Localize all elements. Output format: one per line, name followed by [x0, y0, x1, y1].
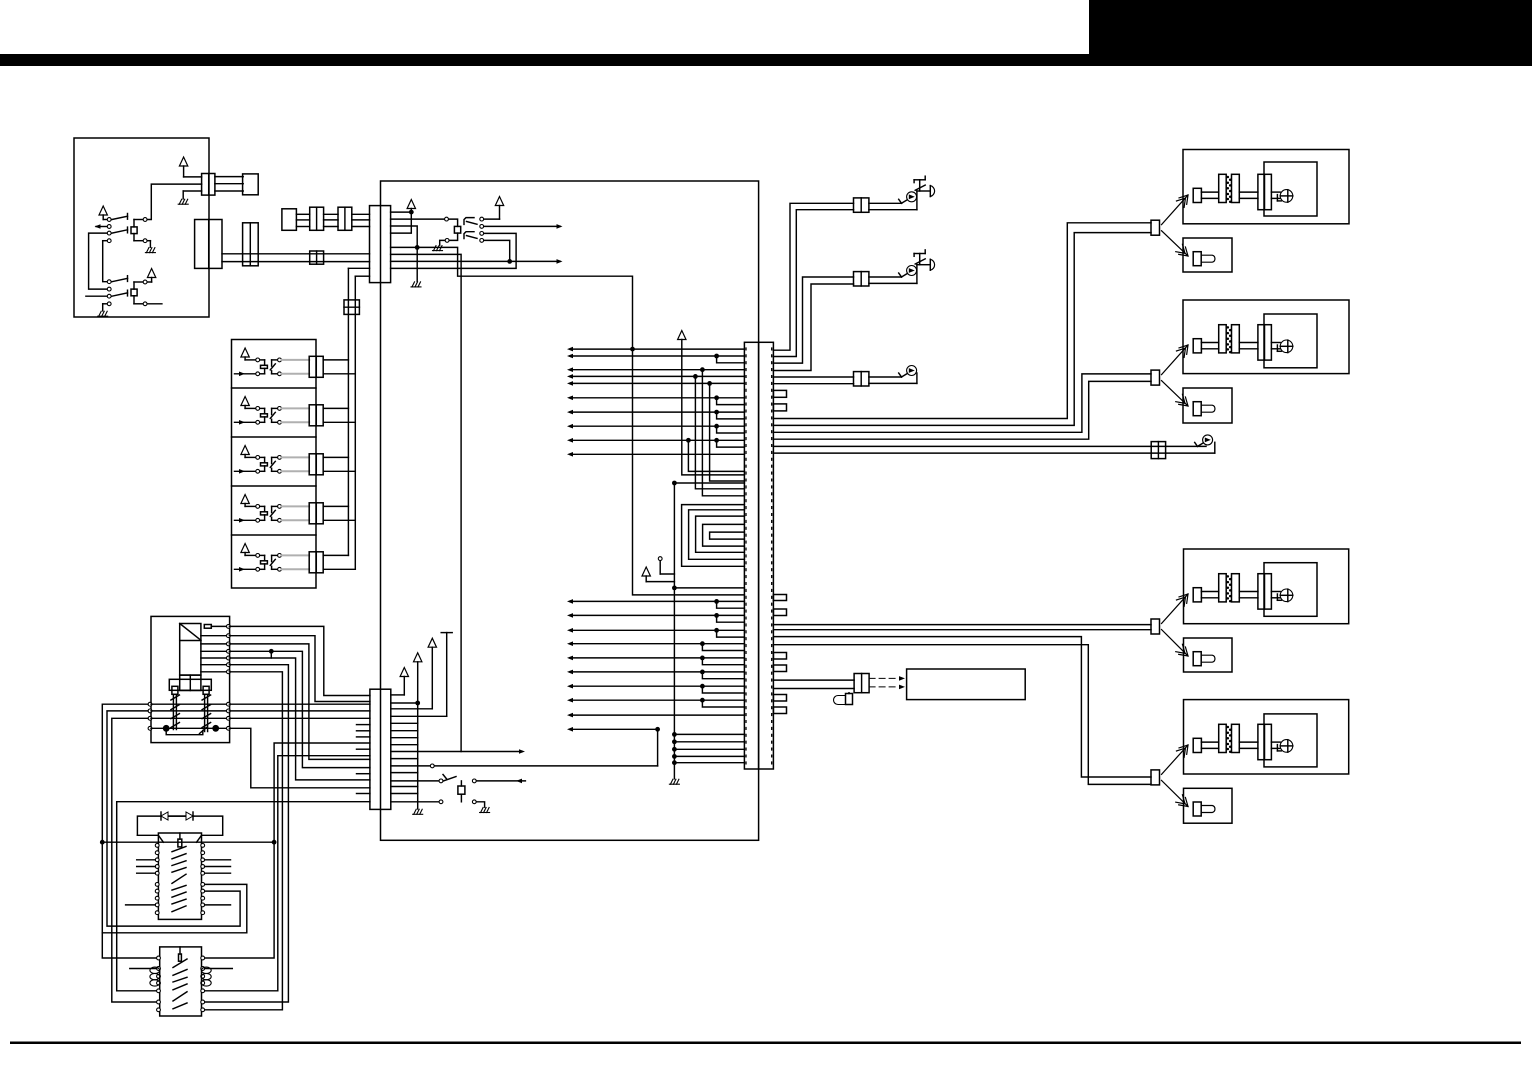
connector E2 inline — [310, 207, 324, 230]
connector J4 — [1151, 770, 1160, 785]
inline connector (tail lamp) — [1151, 442, 1165, 459]
contacts left (block 4) — [256, 505, 260, 509]
bulb symbol — [1193, 802, 1201, 816]
crossing vertical a — [686, 438, 691, 443]
socket connector — [1258, 574, 1265, 609]
U loop 4 — [703, 524, 745, 546]
wire block 4 to bus1 — [323, 505, 348, 507]
resistor (D aux) — [449, 219, 458, 226]
connector plates — [1219, 574, 1227, 602]
crossing vertical b — [693, 374, 698, 379]
wire SG1 to SG2 inner — [103, 240, 107, 242]
horn device circle — [907, 366, 917, 376]
relay output rows — [211, 625, 227, 627]
power arrow (right of D) — [407, 200, 415, 209]
power arrow B+ (combo box top) — [179, 157, 187, 166]
rear marker lamp box 2 — [1184, 788, 1233, 823]
contact — [445, 217, 449, 221]
wire D row8 Z to switch — [391, 233, 516, 268]
horn1 feed wires — [773, 203, 853, 350]
heater control connector — [854, 674, 869, 693]
switch SW-D hook upper — [464, 218, 474, 225]
arrow J3 to lamp assembly — [1162, 594, 1189, 624]
switch SG2 arm upper — [112, 278, 128, 281]
contact (SG2 right upper) — [143, 280, 147, 284]
frame to ignition row884 — [102, 884, 247, 932]
wires to heater control connector — [773, 679, 854, 681]
tail lamp wire pair — [773, 445, 1206, 447]
wire CA down to switch SG1 — [147, 184, 201, 219]
aux switch arm — [443, 777, 456, 781]
front turn signal lamp box — [1183, 150, 1349, 224]
relay wire to F — [229, 636, 370, 702]
resistor (block 1) — [261, 365, 268, 368]
rear combination lamp box — [1184, 549, 1349, 624]
starter stub left — [130, 968, 157, 970]
bus2 to connector D — [355, 275, 369, 277]
contacts left (block 3) — [256, 456, 260, 460]
U loop 3 — [696, 516, 745, 552]
switch SW-D contacts — [480, 217, 484, 221]
connector (block 3) — [309, 454, 323, 475]
bulb socket plug — [1193, 738, 1201, 752]
label box — [907, 669, 1026, 700]
wire D row5 staircase to main bundle — [391, 247, 633, 349]
connector D — [370, 206, 391, 283]
illumination lamp (heater) — [848, 692, 850, 695]
ground (D aux) — [440, 240, 445, 245]
front turn signal lamp box 2 — [1183, 300, 1349, 374]
ignition stubs right — [205, 859, 231, 861]
arrow J2 to bulb box — [1162, 381, 1189, 406]
wires E2-E3 — [324, 213, 338, 215]
power arrow F3 — [428, 638, 436, 647]
connector CB block — [243, 174, 259, 195]
power arrow (block 3) — [241, 446, 249, 455]
switch contacts right (block 5) — [278, 554, 282, 558]
horn arm — [915, 259, 925, 264]
bulb symbol — [1193, 402, 1201, 416]
resistor (block 2) — [261, 414, 268, 417]
relay row merge node — [269, 649, 274, 654]
horn contact tick — [902, 200, 907, 203]
horn connector — [854, 372, 869, 386]
jumper loops on CN right lower — [773, 595, 786, 601]
U loop 2 — [689, 510, 745, 560]
bulb socket plug — [1193, 188, 1201, 202]
connector E3 inline — [338, 207, 352, 230]
relay unit body — [180, 624, 201, 676]
plug pin left — [172, 686, 178, 694]
switch SG1 arm lower — [112, 230, 128, 233]
inner lamp housing — [1264, 162, 1317, 216]
contacts left (block 5) — [256, 554, 260, 558]
connector F — [370, 689, 391, 809]
arrow J3 to bulb box — [1162, 630, 1189, 657]
wires to connector3 — [773, 624, 1151, 626]
relay wire to F — [229, 644, 370, 760]
switch block column box — [232, 340, 317, 589]
horn arm — [915, 185, 925, 190]
bulb socket plug — [1193, 339, 1201, 353]
switch SG2 arm lower — [112, 293, 128, 296]
ignition resistor — [178, 839, 182, 847]
lower harness wires with arrows — [570, 600, 744, 602]
power arrow mid — [642, 567, 650, 576]
starter resistor — [179, 954, 182, 961]
wire to connector (block 4) — [282, 506, 310, 520]
socket connector — [1258, 724, 1265, 759]
wire SG1 to SG2 outer — [89, 233, 107, 289]
lamp device (tail) — [1198, 443, 1203, 446]
switch bracket (block 3) — [272, 456, 278, 458]
horn device circle — [907, 192, 917, 202]
ignition stubs left — [137, 859, 156, 861]
front marker lamp box 2 — [1183, 388, 1232, 423]
staircase stubs (lower) — [714, 599, 719, 604]
starter coil bumps left — [150, 967, 160, 973]
dashed leads to label box — [869, 678, 899, 687]
wire block 5 to bus1 — [323, 554, 348, 556]
bus 2 vertical — [354, 276, 356, 569]
switch SG1 contacts left — [107, 218, 111, 222]
wire SW-D row2 arrow — [484, 225, 560, 227]
bottom wire group to CN — [672, 732, 677, 737]
pass-through contact rows — [148, 702, 152, 706]
power arrow (SW-D) — [495, 197, 503, 206]
ignition switch head — [137, 816, 222, 842]
bulb — [1280, 740, 1293, 753]
power arrow (SG1) — [99, 206, 107, 215]
jumper loops on CN right lower2 — [773, 653, 786, 660]
switch block divider 5 — [232, 534, 317, 536]
connector E1 block — [282, 209, 297, 231]
horn riser — [916, 191, 918, 210]
long vertical (power arrow feed) — [678, 331, 686, 340]
horn trumpet — [929, 186, 931, 197]
grounded bus for bottom group — [673, 483, 675, 779]
connector CA on box edge — [202, 174, 215, 196]
bulb — [1280, 340, 1293, 353]
wire block 3 to bus1 — [323, 456, 348, 458]
U loop 1 — [682, 505, 745, 567]
horn trumpet — [929, 259, 931, 270]
bottom contact row — [148, 726, 152, 730]
jumper loops on CN right lower3 — [773, 695, 786, 702]
wire to connector (block 5) — [282, 555, 310, 569]
diode pair — [166, 815, 193, 817]
ground (SG1) — [147, 240, 150, 242]
crossing vertical c — [700, 367, 705, 372]
bulb symbol — [1193, 652, 1201, 666]
switch contacts right (block 3) — [278, 456, 282, 460]
switch SW-D hook lower — [464, 232, 474, 239]
plug pin right — [203, 686, 209, 694]
relay bottom row to F — [229, 728, 370, 788]
wire D row4 loop — [391, 212, 412, 233]
relay wire to starter b — [205, 672, 283, 1010]
crossing vertical d — [707, 381, 712, 386]
ground (below CA) — [183, 190, 201, 192]
arrow lead (block 1) — [235, 373, 256, 375]
plug base bracket — [169, 679, 211, 690]
long feed from F to starter via left column — [117, 802, 370, 991]
wire block 2 to bus1 — [323, 407, 348, 409]
connector (block 1) — [309, 356, 323, 377]
feed from D staircase into CN — [633, 349, 745, 595]
contact — [445, 239, 449, 243]
row with right arrow — [391, 751, 522, 753]
ignition switch arms — [172, 846, 186, 851]
switch contacts right (block 1) — [278, 358, 282, 362]
resistor (block 3) — [261, 463, 268, 466]
CN pin ticks left — [745, 348, 747, 766]
horn connector — [854, 198, 869, 212]
wire switch row to node — [484, 240, 510, 261]
aux lead with arrow — [476, 780, 525, 782]
wire CA to CB middle — [215, 183, 243, 185]
node on first row — [630, 347, 635, 352]
connector B on combo box edge — [195, 220, 222, 269]
aux resistor — [458, 786, 465, 794]
connector CC inline — [310, 251, 324, 264]
contact (SG1 right upper) — [143, 218, 147, 222]
wires E1-E2 — [296, 213, 309, 215]
bulb base — [1276, 195, 1278, 201]
node (D row1) — [409, 210, 414, 215]
switch block divider 4 — [232, 485, 317, 487]
device3 feed wires — [773, 376, 853, 378]
resistor (block 4) — [261, 512, 268, 515]
arrow J1 to lamp assembly — [1162, 195, 1189, 225]
breaker strip right — [204, 694, 206, 731]
bulb — [1280, 589, 1293, 602]
horn bracket — [914, 179, 925, 181]
connector (block 4) — [309, 503, 323, 524]
wire to connector (block 2) — [282, 408, 310, 422]
node — [415, 245, 420, 250]
relay wire to F — [229, 651, 370, 767]
socket connector — [1258, 174, 1265, 209]
stub lead (SG2 row3) — [86, 295, 107, 297]
power arrow (block 2) — [241, 397, 249, 406]
row 729 jog down to row 766 — [570, 728, 658, 730]
front marker lamp box — [1183, 238, 1232, 272]
wire to connector (block 3) — [282, 457, 310, 471]
power arrow (SG2) — [147, 269, 155, 278]
wire block 1 to bus2 — [323, 373, 355, 375]
horn riser — [916, 265, 918, 284]
bulb symbol — [1193, 252, 1201, 266]
bulb — [1280, 190, 1293, 203]
connector J1 — [1151, 220, 1160, 235]
starter contact rows — [157, 956, 161, 960]
CN pin ticks right — [771, 348, 773, 766]
arrow J2 to lamp assembly — [1162, 345, 1189, 375]
resistor (SG2) — [131, 289, 137, 296]
horn connector — [854, 272, 869, 286]
wire block 5 to bus2 — [323, 568, 355, 570]
connector (block 2) — [309, 405, 323, 426]
bus1 to connector D — [348, 267, 369, 269]
control unit box — [381, 181, 759, 840]
switch block divider 3 — [232, 436, 317, 438]
upper harness wires with arrows — [570, 348, 744, 350]
connector plates — [1219, 174, 1227, 202]
battery T-bar feed — [441, 632, 452, 634]
wire D row6 to long vertical V1 — [391, 254, 462, 751]
wire block 3 to bus2 — [323, 470, 355, 472]
arrow J1 to bulb box — [1162, 231, 1189, 256]
starter coil bumps right — [201, 967, 211, 973]
ignition top feed row — [102, 841, 274, 843]
relay lower section — [180, 675, 201, 690]
horn bracket — [914, 253, 925, 255]
switch SG1 arm upper — [112, 216, 128, 219]
bus row 588 node — [672, 586, 677, 591]
horn wires — [869, 202, 902, 204]
starter switch body — [160, 947, 202, 1016]
node — [507, 259, 512, 264]
bottom rule — [10, 1042, 1521, 1045]
header black title block — [1089, 0, 1532, 54]
bus top row with node — [672, 481, 677, 486]
aux contacts lower — [439, 800, 443, 804]
switch bracket (block 5) — [272, 554, 278, 556]
staircase stubs (upper) — [714, 354, 719, 359]
row with terminal circle — [391, 765, 430, 767]
connector J2 — [1151, 370, 1160, 385]
resistor (block 5) — [261, 561, 268, 564]
contact (SG2 right lower) — [143, 302, 147, 306]
relay box — [151, 616, 230, 742]
horn contact tick — [902, 374, 907, 377]
contacts left (block 2) — [256, 407, 260, 411]
arrow lead (block 2) — [235, 421, 256, 423]
arrow J4 to bulb box — [1162, 780, 1189, 806]
wire D row1 — [391, 211, 412, 213]
wire D row3 to ground — [391, 226, 418, 282]
ground (SG2) — [103, 303, 107, 305]
horn2 feed wires — [773, 277, 853, 363]
rear marker lamp box — [1184, 638, 1233, 672]
inner lamp housing 2 — [1264, 314, 1317, 368]
inner lamp housing 4 — [1264, 714, 1317, 767]
arrow lead (block 4) — [235, 519, 256, 521]
switch contacts right (block 4) — [278, 505, 282, 509]
arrow lead (SG1 row2) — [96, 226, 107, 228]
U loop 5 — [710, 532, 745, 539]
starter stub right — [205, 968, 233, 970]
switch bracket (block 1) — [272, 359, 278, 361]
wire CA to CB lower — [215, 190, 243, 192]
power arrow F1 — [400, 668, 408, 677]
power arrow (block 1) — [241, 348, 249, 357]
ignition switch body — [158, 833, 201, 919]
relay wire to F — [229, 626, 370, 695]
bus inline connector — [344, 300, 359, 315]
relay left wires to far-left columns — [102, 704, 156, 958]
F spare pin stubs — [357, 724, 370, 726]
horn device circle — [907, 266, 917, 276]
strip hatches — [171, 695, 180, 700]
lamp circuit feed wires — [773, 223, 1151, 419]
ignition row 904 stubs — [126, 904, 156, 906]
contacts left (block 1) — [256, 358, 260, 362]
horn contact tick — [902, 274, 907, 277]
switch bracket (block 2) — [272, 407, 278, 409]
arrow lead (block 5) — [235, 568, 256, 570]
aux ground — [476, 802, 484, 807]
wire CA to CB upper — [215, 176, 243, 178]
wires to connector4 — [773, 637, 1151, 777]
arrow J4 to lamp assembly — [1162, 745, 1189, 774]
connector plates — [1219, 724, 1227, 752]
bulb base — [1276, 345, 1278, 351]
tall connector TC inline — [243, 223, 259, 266]
combination switch box — [74, 138, 209, 317]
relay wire to starter a — [205, 665, 289, 1002]
switch block divider 2 — [232, 387, 317, 389]
ignition feed wires down from F — [205, 743, 370, 958]
wire block 4 to bus2 — [323, 519, 355, 521]
device riser — [916, 373, 918, 383]
wires E3-D — [352, 213, 370, 215]
wire to connector (block 1) — [282, 360, 310, 374]
switch bracket (block 4) — [272, 505, 278, 507]
power arrow (block 4) — [241, 495, 249, 504]
horn wires — [869, 276, 902, 278]
inner lamp housing 3 — [1264, 563, 1317, 617]
starter switch arms — [173, 959, 187, 968]
resistor (SG1) — [131, 227, 137, 234]
junction dots on bottom row — [163, 725, 170, 732]
arrow lead (block 3) — [235, 470, 256, 472]
wire D row7 with node to arrow — [391, 260, 560, 262]
header rule bar — [0, 54, 1532, 66]
wire B to D upper — [222, 253, 370, 255]
wire block 2 to bus2 — [323, 421, 355, 423]
switch contacts right (block 2) — [278, 407, 282, 411]
comb rows tied to bus — [391, 722, 418, 724]
terminal circle mid — [658, 557, 662, 561]
wire B to D lower — [222, 261, 370, 263]
central connector CN — [744, 342, 773, 769]
wire block 1 to bus1 — [323, 359, 348, 361]
bus 1 vertical — [347, 268, 349, 555]
switch SG2 contacts left — [107, 280, 111, 284]
aux switch right of F — [391, 780, 439, 782]
bulb socket plug — [1193, 588, 1201, 602]
grounded bus right of F — [414, 653, 422, 662]
horn wires — [869, 376, 902, 378]
contact (SG1 right lower) — [143, 239, 147, 243]
lead from SG2 lower — [147, 303, 162, 305]
connector J3 — [1151, 619, 1160, 634]
socket connector — [1258, 325, 1265, 360]
wire D row2 to contact — [391, 218, 445, 220]
relay wire to F — [229, 658, 370, 780]
connector plates — [1219, 325, 1227, 353]
bulb base — [1276, 594, 1278, 600]
bulb base — [1276, 745, 1278, 751]
power arrow (block 5) — [241, 544, 249, 553]
link bar below — [166, 728, 203, 734]
breaker strip left — [172, 694, 174, 729]
connector (block 5) — [309, 552, 323, 573]
node F2 — [415, 701, 420, 706]
jumper loops on CN right — [773, 390, 786, 397]
